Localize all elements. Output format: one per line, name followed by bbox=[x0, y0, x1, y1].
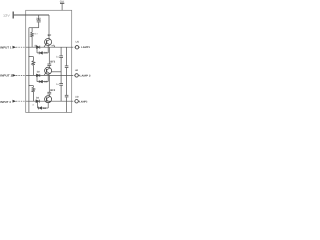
wire bus to T1 collector bbox=[48, 15, 50, 39]
svg-text:LA1: LA1 bbox=[76, 41, 80, 44]
diode D2 on row2 bbox=[36, 74, 39, 77]
svg-text:INPUT 3: INPUT 3 bbox=[0, 100, 11, 104]
svg-text:INPUT 2: INPUT 2 bbox=[0, 74, 13, 78]
wire cap chain B2 bbox=[66, 75, 68, 95]
wire T3 emitter bbox=[47, 102, 49, 108]
wire supply rail bbox=[14, 14, 49, 16]
wire cap chain B1 bbox=[66, 47, 68, 65]
capacitor C7 bbox=[47, 92, 51, 96]
wire channel row 3 bbox=[26, 100, 72, 102]
resistor R2 chain with rail junction bbox=[28, 56, 34, 75]
diode D3 on row3 bbox=[36, 100, 39, 103]
wire T2 collector lead bbox=[48, 47, 50, 64]
diode D6 bbox=[39, 107, 42, 110]
wire input 2 dashed bbox=[16, 74, 26, 76]
wire emitter row 2 bbox=[37, 81, 48, 83]
supply terminal T-bar top left bbox=[12, 12, 14, 19]
wire ground rail bbox=[28, 28, 30, 113]
output 1 wire bbox=[72, 46, 75, 48]
wire cap chain B3 bbox=[66, 101, 68, 112]
resistor R3 chain with rail junction bbox=[28, 85, 34, 101]
svg-text:0V: 0V bbox=[60, 1, 65, 4]
svg-text:LAMP1: LAMP1 bbox=[81, 46, 90, 49]
wire T1 collector jog bbox=[51, 46, 54, 47]
input arrow 3 bbox=[13, 100, 17, 103]
wire T2 emitter bbox=[47, 74, 49, 82]
wire channel row 2 bbox=[26, 74, 72, 76]
transistor T3 bbox=[45, 96, 52, 103]
wire stub up 2 bbox=[36, 75, 38, 81]
wire LA3 stub bbox=[78, 100, 80, 102]
capacitor C5 bbox=[59, 84, 63, 102]
svg-text:LAMP 2: LAMP 2 bbox=[80, 75, 92, 78]
wire channel row 1 bbox=[26, 46, 72, 48]
resistor R1 bbox=[31, 28, 34, 48]
svg-text:2n2: 2n2 bbox=[36, 18, 41, 21]
capacitor C3 bbox=[59, 56, 63, 76]
svg-text:BF3: BF3 bbox=[50, 89, 55, 92]
svg-text:LAMP3: LAMP3 bbox=[79, 100, 88, 103]
wire input 1 dashed bbox=[16, 46, 26, 48]
transistor T2 bbox=[44, 67, 52, 75]
wire LA2 stub bbox=[78, 74, 80, 76]
wire LA1 stub bbox=[79, 46, 81, 48]
wire terminal drop bbox=[61, 3, 63, 10]
wire T3 collector lead bbox=[48, 75, 50, 92]
svg-text:INPUT 1: INPUT 1 bbox=[0, 45, 12, 49]
module box bbox=[26, 10, 72, 112]
lamp LA3 bbox=[75, 100, 78, 103]
wire input 3 dashed bbox=[16, 100, 26, 102]
wire stub up 3 bbox=[37, 101, 39, 108]
diode D1 on row1 bbox=[36, 46, 39, 49]
capacitor C4 bbox=[65, 66, 69, 76]
diode D5 bbox=[39, 80, 42, 83]
svg-text:BF: BF bbox=[48, 34, 52, 37]
output 3 wire bbox=[72, 100, 75, 102]
wire jog stage1 bbox=[29, 27, 39, 29]
wire T2 collector jog bbox=[52, 71, 62, 73]
diode D4 bbox=[39, 52, 42, 55]
wire emitter row 3 bbox=[38, 107, 49, 109]
svg-text:12V: 12V bbox=[3, 13, 10, 17]
svg-text:LA3: LA3 bbox=[75, 95, 79, 98]
capacitor C1 bbox=[37, 15, 41, 28]
wire cap chain A1 bbox=[60, 47, 62, 55]
output 2 wire bbox=[72, 74, 75, 76]
terminal top right bbox=[60, 2, 64, 4]
transistor T1 bbox=[44, 39, 52, 48]
svg-text:BF2: BF2 bbox=[50, 61, 55, 64]
lamp LA1 bbox=[75, 46, 78, 49]
wire T1 emitter bbox=[47, 45, 49, 53]
input arrow 2 bbox=[13, 74, 17, 77]
capacitor C2 bbox=[47, 64, 51, 67]
wire emitter row 1 bbox=[37, 52, 48, 54]
capacitor C6 bbox=[65, 95, 69, 101]
svg-text:LA2: LA2 bbox=[75, 69, 78, 72]
wire cap chain A2 bbox=[60, 75, 62, 83]
lamp LA2 bbox=[75, 74, 78, 77]
input arrow 1 bbox=[13, 46, 17, 49]
wire stub up bbox=[36, 47, 38, 53]
